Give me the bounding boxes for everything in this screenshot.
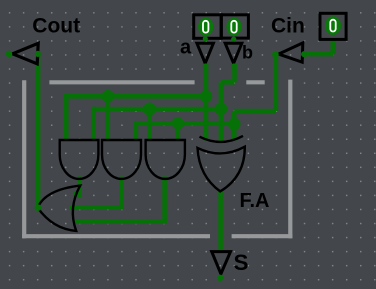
- wire H2 b-net horizontal y=109: [93, 107, 221, 112]
- wire XOR output to S pin: [218, 190, 223, 250]
- AND gate ab: [60, 140, 99, 179]
- AND gate a·cin: [102, 140, 141, 179]
- wire cin vertical drop: [274, 55, 279, 112]
- wire b-net drop from junction F to AND3 left input: [147, 109, 152, 141]
- OR gate Cout: [38, 186, 81, 231]
- wire H1 a-net horizontal y=96.3: [66, 94, 206, 99]
- input pin Cin state ellipse: [325, 16, 341, 35]
- input pin a box: [194, 15, 221, 39]
- input pin Cin zero glyph: [330, 20, 335, 32]
- XOR gate sum body: [198, 147, 245, 192]
- input pin a state ellipse: [198, 18, 213, 36]
- svg-text:F.A: F.A: [240, 190, 270, 212]
- wire V2 b-net vertical to XOR input 2: [219, 82, 224, 142]
- output pin S apex dot: [217, 275, 223, 281]
- output pin Cout wire dot: [35, 51, 41, 57]
- subcircuit border right edge: [288, 80, 292, 239]
- wire AND1 output to OR input 1: [77, 177, 82, 198]
- wire a-net drop to AND1 left input: [64, 94, 69, 141]
- output pin Cout tip dot: [6, 51, 13, 58]
- AND gate b·cin: [146, 140, 185, 179]
- wire cin pin horizontal to triangle: [304, 52, 334, 57]
- wire AND2 output horizontal to OR input 2: [70, 205, 124, 210]
- wire V3 cin-net vertical to XOR input 3: [232, 111, 237, 140]
- wire Cout net vertical: [36, 54, 41, 208]
- input pin Cin triangle: [279, 43, 303, 62]
- input pin a apex dot: [203, 63, 209, 69]
- wire b pin jog vertical: [232, 64, 237, 82]
- wire cin pin box stub: [331, 41, 336, 55]
- wire cin horizontal into border: [234, 109, 276, 114]
- wire cin-net drop to AND2 right input: [134, 121, 139, 141]
- input pin Cin tip dot: [272, 51, 279, 58]
- junction F: [143, 103, 156, 116]
- OR gate output tip dot: [35, 204, 42, 211]
- input pin a box dot: [203, 36, 208, 41]
- input pin a triangle: [197, 43, 214, 63]
- input pin b zero glyph: [231, 21, 236, 33]
- input pin b box: [221, 15, 248, 38]
- junction C: [228, 118, 241, 131]
- wire AND3 output horizontal to OR input 3: [74, 219, 167, 224]
- svg-text:Cin: Cin: [271, 15, 305, 38]
- input pin b box dot: [231, 37, 236, 42]
- subcircuit border top segment 1: [49, 80, 194, 84]
- svg-text:b: b: [242, 42, 253, 62]
- svg-text:S: S: [234, 250, 249, 275]
- output pin Cout triangle: [13, 43, 39, 64]
- subcircuit border top segment 2: [246, 80, 264, 84]
- svg-text:a: a: [180, 36, 192, 58]
- wire b-net drop to AND1 right input: [91, 107, 96, 141]
- input pin a zero glyph: [203, 21, 208, 33]
- wire AND3 output vertical: [162, 177, 167, 222]
- wire OR input 1 leg stub: [74, 192, 83, 197]
- subcircuit border bottom segment 1: [22, 234, 210, 238]
- input pin b apex dot: [231, 63, 237, 69]
- XOR gate sum upper arc: [200, 136, 244, 142]
- output pin S triangle: [212, 252, 231, 274]
- wire b pin jog horizontal: [221, 80, 235, 85]
- wire cin-net drop from junction G to AND3 right input: [176, 123, 181, 141]
- junction A: [200, 90, 213, 103]
- subcircuit border left edge: [22, 80, 26, 238]
- wire V1 a-net vertical to XOR input 1: [204, 64, 209, 141]
- input pin Cin wire dot: [301, 51, 307, 57]
- junction E: [102, 90, 115, 103]
- input pin b state ellipse: [226, 18, 241, 36]
- input pin b triangle: [225, 43, 242, 63]
- input pin Cin box: [320, 13, 346, 39]
- svg-text:Cout: Cout: [32, 14, 80, 37]
- junction G: [172, 117, 184, 129]
- junction B: [215, 103, 228, 116]
- wire AND2 output vertical: [119, 177, 124, 208]
- wire a-net drop from junction E to AND2 left input: [106, 96, 111, 141]
- subcircuit border bottom segment 2: [232, 234, 293, 238]
- wire H3 cin-net horizontal y=123.4: [136, 121, 234, 126]
